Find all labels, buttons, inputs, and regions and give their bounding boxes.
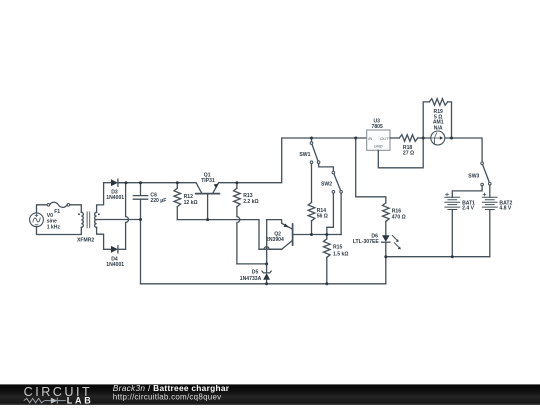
diode D4 — [104, 246, 126, 268]
svg-text:1.5 kΩ: 1.5 kΩ — [333, 252, 348, 258]
svg-text:D5: D5 — [252, 270, 259, 276]
wire bias line — [177, 220, 281, 250]
zener diode D5 — [240, 264, 271, 284]
svg-text:http://circuitlab.com/cq8quev: http://circuitlab.com/cq8quev — [113, 392, 222, 401]
svg-text:N/A: N/A — [434, 125, 443, 131]
svg-text:SW1: SW1 — [299, 152, 310, 158]
svg-text:470 Ω: 470 Ω — [392, 214, 406, 220]
battery BAT2 — [482, 193, 512, 212]
svg-text:R13: R13 — [243, 193, 253, 199]
wire top rail right — [219, 138, 367, 183]
svg-text:TIP31: TIP31 — [201, 178, 215, 184]
wire top rail left — [118, 182, 196, 184]
svg-text:1 kHz: 1 kHz — [47, 224, 61, 230]
svg-text:OUT: OUT — [380, 136, 389, 141]
ammeter AM1 — [423, 120, 451, 145]
resistor R16 — [383, 203, 406, 235]
svg-text:56 Ω: 56 Ω — [317, 214, 328, 220]
svg-text:LTL-307EE: LTL-307EE — [353, 239, 380, 245]
svg-text:1N4001: 1N4001 — [106, 195, 124, 201]
resistor R19 — [423, 99, 451, 138]
resistor R12 — [174, 183, 198, 220]
voltage source V0 — [30, 213, 61, 230]
node junction dots — [125, 137, 454, 286]
svg-text:1N4001: 1N4001 — [106, 262, 124, 268]
wire to SW3 — [452, 138, 483, 162]
wire battery rail — [386, 256, 490, 258]
resistor R18 — [390, 135, 423, 157]
switch SW3 — [468, 162, 491, 186]
wire D6 to rails — [385, 242, 387, 284]
wire ground rail — [141, 283, 386, 285]
wire SW1 to SW2 — [319, 164, 334, 172]
wire — [70, 205, 82, 213]
fuse F1 — [47, 202, 70, 215]
svg-text:XFMR2: XFMR2 — [77, 238, 94, 244]
transistor Q2 — [266, 220, 341, 250]
wire SW2 left throw — [327, 193, 334, 234]
switch SW2 — [321, 171, 342, 193]
wire BAT2 down — [489, 210, 491, 257]
svg-text:2N3904: 2N3904 — [266, 237, 284, 243]
diode D3 — [104, 179, 126, 201]
voltage regulator U3 7805 — [367, 118, 390, 150]
LED D6 — [353, 234, 401, 250]
svg-text:1N4733A: 1N4733A — [240, 276, 262, 282]
wire GND return — [378, 138, 423, 168]
wire D4 riser with hop — [126, 183, 129, 250]
svg-text:4.8 V: 4.8 V — [499, 206, 511, 212]
resistor R13 — [234, 183, 267, 264]
svg-text:SW3: SW3 — [468, 174, 479, 180]
wire Q2 collector with hop — [259, 247, 282, 250]
wire — [37, 205, 48, 213]
svg-text:LAB: LAB — [67, 396, 94, 406]
svg-text:7805: 7805 — [372, 124, 383, 130]
svg-text:2.4 V: 2.4 V — [462, 206, 474, 212]
svg-text:12 kΩ: 12 kΩ — [184, 200, 198, 206]
svg-text:F1: F1 — [54, 209, 60, 215]
wire — [37, 227, 82, 235]
svg-text:R15: R15 — [333, 245, 343, 251]
transistor Q1 — [196, 173, 220, 220]
wire SW3 to BAT1 — [452, 186, 482, 198]
wire C6 to ground rail — [140, 220, 142, 284]
resistor R14 — [308, 164, 328, 235]
svg-text:GND: GND — [374, 143, 383, 148]
wire secondary top — [97, 183, 104, 213]
resistor R15 — [324, 235, 349, 284]
wire SW3 to BAT2 — [489, 185, 491, 197]
svg-text:SW2: SW2 — [321, 181, 332, 187]
switch SW1 — [299, 138, 320, 164]
svg-text:27 Ω: 27 Ω — [403, 150, 414, 156]
transformer XFMR2 — [77, 212, 100, 244]
battery BAT1 — [445, 193, 475, 212]
wire center tap — [97, 219, 141, 221]
svg-text:IN: IN — [368, 136, 372, 141]
wire SW2 right throw — [340, 193, 342, 234]
wire to R16 — [356, 138, 386, 203]
wire BAT1 down — [451, 210, 453, 257]
wire secondary bottom — [97, 227, 104, 249]
svg-text:2.2 kΩ: 2.2 kΩ — [243, 199, 258, 205]
wire Q2 emitter drop — [266, 220, 268, 264]
capacitor C6 — [133, 183, 166, 220]
CircuitLab logo — [24, 385, 94, 406]
svg-text:220 µF: 220 µF — [150, 198, 166, 204]
